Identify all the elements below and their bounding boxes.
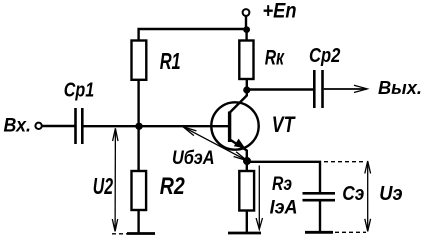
resistor Re <box>239 171 254 211</box>
wire Rk bottom to collector node <box>246 79 248 90</box>
arrow Ue double-headed <box>365 161 371 231</box>
node base junction dot <box>135 123 142 130</box>
node emitter junction dot <box>243 157 251 165</box>
arrow output to Vyx <box>324 85 368 92</box>
arrow Ube double-headed base to emitter <box>183 127 247 161</box>
arrow U2 double-headed <box>112 128 118 231</box>
svg-text:U2: U2 <box>93 173 113 199</box>
svg-text:IэА: IэА <box>270 197 298 219</box>
wire Ce to ground bar <box>319 200 321 232</box>
svg-text:Ср1: Ср1 <box>64 79 94 101</box>
svg-text:Вых.: Вых. <box>378 77 422 98</box>
wire +En terminal drop <box>245 16 247 30</box>
svg-text:VT: VT <box>272 112 296 137</box>
wire Cp1 to base node to transistor base <box>84 125 229 127</box>
wire R2 to ground bar <box>137 210 139 233</box>
wire collector node to Cp2 <box>247 88 313 90</box>
svg-text:Rк: Rк <box>265 47 285 70</box>
svg-text:Uэ: Uэ <box>379 182 402 205</box>
wire emitter node to Ce <box>247 162 320 193</box>
dashed line top to Ue arrow <box>324 161 366 163</box>
svg-text:+En: +En <box>263 0 297 23</box>
svg-text:R1: R1 <box>160 48 181 74</box>
wire Re to ground bar <box>246 211 248 234</box>
terminal +En open circle <box>243 9 250 16</box>
transistor VT <box>211 90 258 162</box>
ground bar under Re <box>228 232 261 235</box>
svg-text:Ср2: Ср2 <box>309 44 341 67</box>
capacitor Ce <box>303 193 336 200</box>
wire R1 bottom to base node <box>137 80 139 127</box>
ground bar under R2 <box>127 232 155 235</box>
svg-text:R2: R2 <box>160 173 186 200</box>
resistor Rk <box>239 41 253 80</box>
capacitor Cp1 <box>76 108 83 144</box>
resistor R1 <box>132 41 147 80</box>
svg-text:Вх.: Вх. <box>4 116 32 137</box>
wire emitter node to Re <box>246 161 248 171</box>
svg-text:Сэ: Сэ <box>342 182 364 205</box>
capacitor Cp2 <box>314 70 322 108</box>
terminal Vx open circle <box>35 123 41 129</box>
node collector junction dot <box>243 86 250 93</box>
wire top rail from R1 riser to +En junction <box>139 29 247 41</box>
dashed line bottom to Ue arrow <box>335 231 366 233</box>
wire input to Cp1 <box>42 125 75 127</box>
svg-text:Rэ: Rэ <box>272 174 292 195</box>
node junction dot at top rail <box>243 26 250 33</box>
ground bar under Ce <box>305 231 333 234</box>
dashed line U2 arrow to R2 ground bar <box>112 233 127 235</box>
resistor R2 <box>132 171 147 210</box>
arrow Ie current <box>256 166 262 230</box>
svg-text:UбэА: UбэА <box>172 147 215 169</box>
wire base node to R2 <box>137 126 139 171</box>
